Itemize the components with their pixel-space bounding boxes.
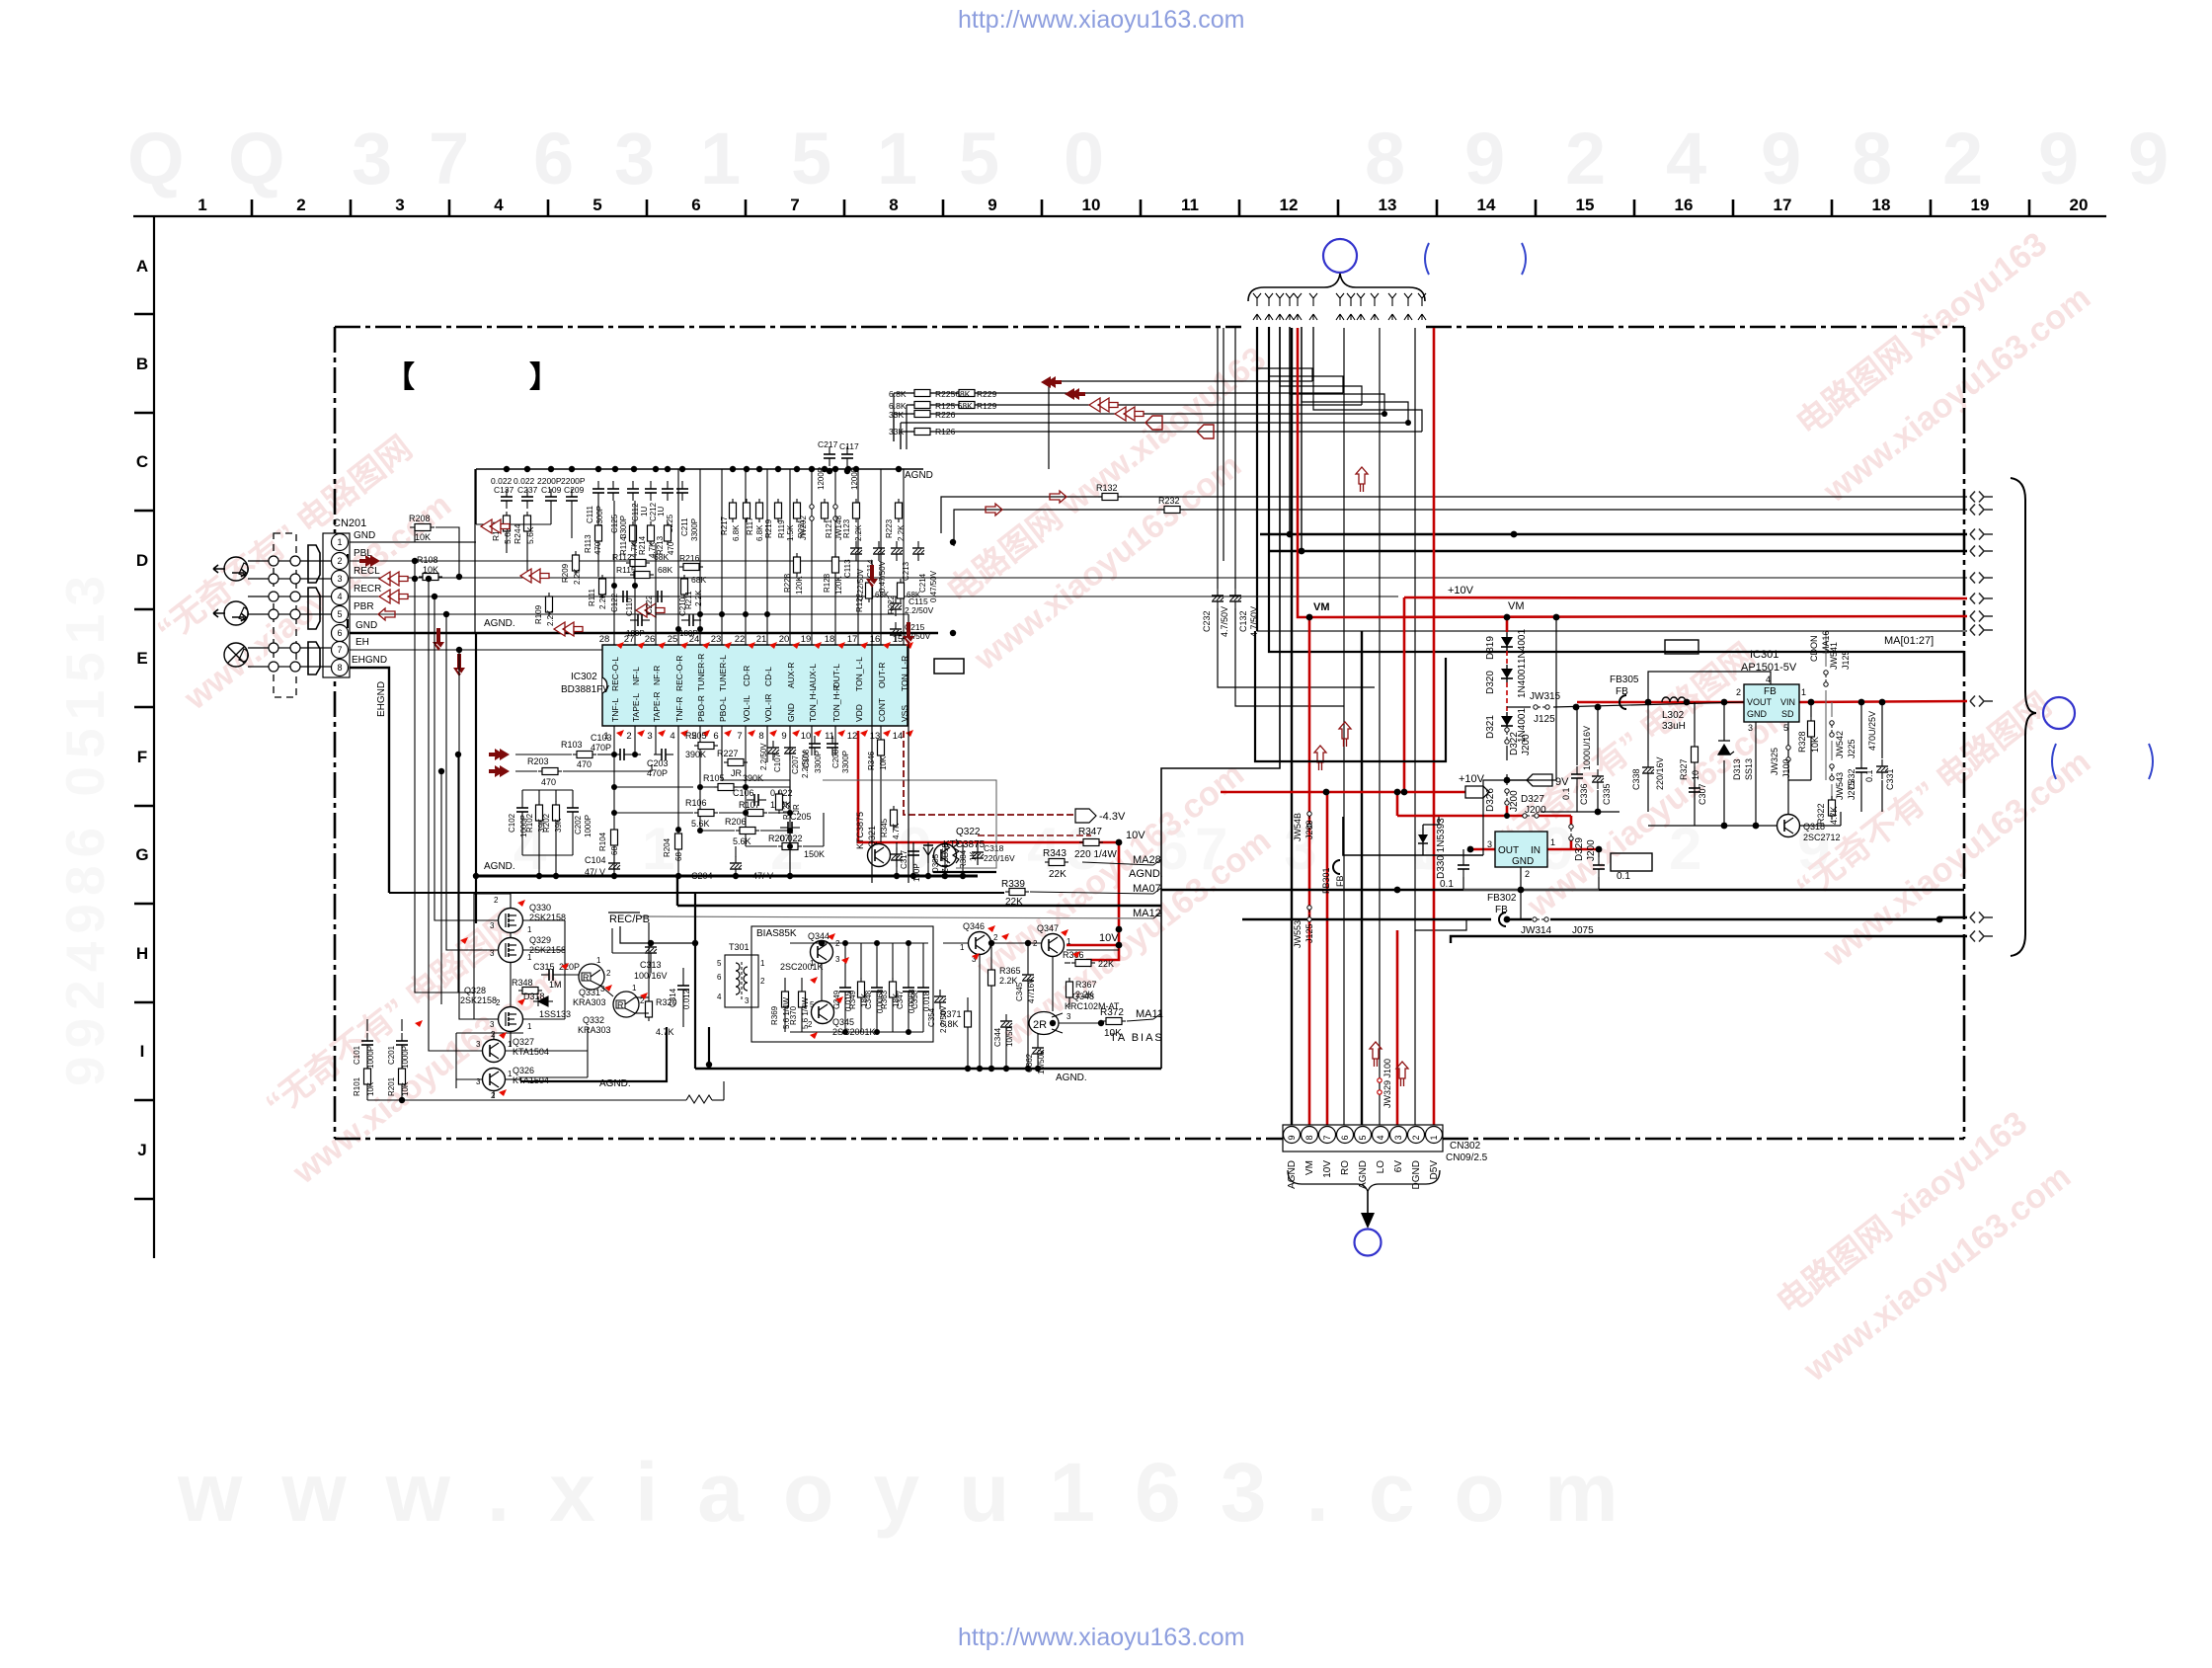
svg-text:VOL-IL: VOL-IL (742, 695, 751, 722)
wire MA bus gray (350, 542, 1967, 631)
transistor Q318 (1777, 815, 1800, 837)
svg-text:3: 3 (1748, 723, 1753, 733)
capacitor C344 (1000, 1014, 1012, 1034)
svg-text:A: A (136, 257, 148, 276)
resistor R371 (965, 1007, 972, 1031)
svg-text:MA16: MA16 (1821, 630, 1831, 654)
capacitor C307 (1689, 780, 1700, 800)
arrow maroon up 4 (1396, 1062, 1408, 1086)
svg-text:C336: C336 (1579, 783, 1589, 805)
svg-text:C315: C315 (533, 962, 555, 972)
arrow maroon up 5 (1356, 467, 1368, 492)
svg-text:1: 1 (1550, 837, 1555, 847)
svg-text:CN302: CN302 (1450, 1141, 1481, 1152)
svg-text:R209: R209 (561, 563, 570, 583)
svg-text:470: 470 (541, 777, 556, 787)
svg-text:TUNER-L: TUNER-L (718, 655, 728, 691)
wire CDON MA16 column (1825, 631, 1827, 667)
wire x1318 down (1301, 327, 1303, 551)
svg-text:Q326: Q326 (513, 1066, 534, 1075)
svg-text:R115: R115 (616, 565, 636, 575)
wire thick corner x1285 (1269, 327, 1964, 652)
svg-text:C211: C211 (680, 517, 689, 536)
wire D330 1N5393 branch (1483, 617, 1556, 855)
svg-text:6.8K: 6.8K (940, 1019, 959, 1029)
capacitor C314 (677, 978, 689, 997)
svg-text:R244: R244 (513, 523, 522, 544)
svg-text:KRA303: KRA303 (573, 997, 606, 1007)
pin y-symbol columns (1253, 293, 1261, 320)
svg-text:EH: EH (355, 637, 369, 648)
svg-text:24: 24 (689, 634, 700, 645)
svg-text:1200P: 1200P (817, 467, 826, 490)
ferrite FB305 (1619, 695, 1626, 709)
svg-text:10: 10 (1691, 770, 1700, 780)
svg-text:8: 8 (889, 196, 898, 214)
svg-text:VM: VM (1508, 600, 1525, 612)
svg-text:7: 7 (790, 196, 799, 214)
svg-text:www.xiaoyu163.com: www.xiaoyu163.com (177, 1446, 1658, 1539)
svg-text:R322: R322 (1816, 803, 1826, 825)
svg-text:C107: C107 (773, 753, 782, 772)
svg-text:C354: C354 (927, 1007, 936, 1027)
pin names bottom row (610, 684, 909, 722)
resistor R121 (822, 499, 829, 522)
svg-text:18: 18 (1872, 196, 1891, 214)
svg-text:C101: C101 (353, 1045, 361, 1065)
small rect spare2 (1611, 853, 1652, 871)
capacitor C313 (645, 940, 657, 960)
resistor R102 (536, 801, 543, 825)
svg-text:3: 3 (490, 921, 495, 930)
svg-text:6: 6 (1340, 1135, 1350, 1140)
resistor R122 (866, 579, 873, 602)
svg-text:Q332: Q332 (583, 1015, 604, 1025)
svg-text:JW54B: JW54B (1293, 813, 1303, 841)
capacitor C315 (541, 969, 561, 981)
jumper JW542 (1830, 721, 1834, 737)
capacitor C316 (891, 847, 903, 867)
wire column C232 (1217, 328, 1219, 589)
svg-text:9: 9 (1761, 118, 1801, 199)
svg-text:22K: 22K (1098, 959, 1114, 969)
wire maroon dashed VSS (904, 731, 1075, 815)
svg-text:E: E (136, 649, 147, 668)
capacitor C101 (361, 1033, 373, 1053)
svg-text:F: F (137, 748, 147, 766)
capacitor C204 (730, 856, 742, 876)
svg-text:1000U/16V: 1000U/16V (1582, 726, 1592, 770)
wire 9V tag link (1507, 779, 1533, 781)
svg-text:2.2/50V: 2.2/50V (759, 743, 768, 770)
tag -4.3V (1075, 809, 1096, 823)
svg-text:0.1: 0.1 (1617, 871, 1630, 882)
resistor R343 (1045, 859, 1068, 866)
svg-text:1N4001: 1N4001 (1517, 664, 1528, 698)
resistor R125 (910, 402, 934, 409)
svg-text:J225: J225 (1847, 739, 1856, 758)
wire red out of OUT pin (1470, 848, 1495, 851)
svg-text:120K: 120K (795, 576, 804, 595)
wire R203 run (515, 770, 537, 772)
svg-text:TNF-L: TNF-L (610, 698, 620, 722)
wire FB loop over IC301 (1648, 672, 1771, 702)
jack circles column (269, 556, 300, 672)
svg-text:2SC2001K: 2SC2001K (780, 962, 824, 972)
capacitor C338 (1642, 760, 1654, 780)
svg-text:JW543: JW543 (1835, 772, 1845, 800)
svg-text:21: 21 (756, 634, 767, 645)
resistor R348 (518, 988, 542, 994)
wire AGND bus (474, 469, 476, 633)
jumper JW543 (1830, 764, 1834, 780)
svg-text:C203: C203 (647, 758, 669, 768)
svg-text:0.1: 0.1 (1864, 769, 1874, 782)
svg-text:+10V: +10V (1459, 773, 1485, 785)
svg-text:R101: R101 (353, 1076, 361, 1096)
svg-text:2.2K: 2.2K (694, 590, 703, 606)
svg-text:2: 2 (337, 556, 342, 566)
svg-text:4: 4 (1666, 118, 1706, 199)
svg-text:470: 470 (577, 759, 592, 769)
svg-text:D330 1N5393: D330 1N5393 (1436, 818, 1447, 879)
svg-text:3: 3 (1393, 1135, 1403, 1140)
svg-text:OUT: OUT (1498, 845, 1519, 856)
svg-text:4.7K: 4.7K (1829, 806, 1839, 825)
svg-text:C102: C102 (508, 813, 516, 833)
svg-text:C232: C232 (1202, 610, 1212, 632)
wire red vertical x1422 (1403, 597, 1406, 792)
arrow open maroon left2 (520, 569, 549, 583)
wire thick corner x1296 down (1161, 327, 1280, 1069)
svg-text:R369: R369 (770, 1005, 779, 1025)
svg-text:8: 8 (337, 663, 342, 673)
svg-text:9: 9 (2038, 118, 2079, 199)
IC IC302 BD3881FV (602, 645, 908, 726)
capacitor C106 (747, 794, 766, 806)
svg-text:6.8K: 6.8K (755, 524, 764, 541)
svg-text:1: 1 (810, 959, 815, 968)
svg-text:2: 2 (1736, 687, 1741, 697)
svg-text:10K: 10K (1810, 737, 1820, 753)
svg-text:R104: R104 (598, 832, 607, 851)
svg-text:2: 2 (1942, 118, 1983, 199)
svg-text:2R: 2R (1033, 1019, 1047, 1031)
wire Q327/Q326 frame (456, 1027, 588, 1098)
svg-text:Q322: Q322 (956, 827, 981, 837)
exit pair y638 (1970, 625, 1993, 636)
svg-text:R217: R217 (720, 516, 729, 535)
svg-text:3: 3 (476, 1077, 481, 1086)
wire GND thick CN201 (350, 632, 938, 635)
svg-text:2: 2 (993, 933, 998, 942)
svg-text:MA07: MA07 (1133, 883, 1161, 895)
svg-text:33K: 33K (889, 410, 904, 420)
capacitor C336 (1571, 766, 1583, 786)
shield pentagon 1 (308, 545, 320, 583)
arrow maroon solid right1 (489, 749, 510, 760)
svg-text:4: 4 (1376, 1135, 1385, 1140)
capacitor C232 (1212, 589, 1224, 608)
svg-text:C318: C318 (984, 843, 1004, 853)
svg-text:J125: J125 (1304, 923, 1314, 943)
capacitor C107 (767, 741, 779, 760)
svg-text:GND: GND (355, 620, 377, 631)
svg-text:10V: 10V (1322, 1160, 1333, 1178)
svg-text:10V: 10V (1099, 932, 1119, 944)
svg-text:390K: 390K (685, 750, 706, 759)
svg-text:GND: GND (354, 530, 375, 541)
svg-text:25: 25 (668, 634, 678, 645)
svg-text:8: 8 (758, 731, 763, 742)
node blue circle top (1323, 239, 1357, 273)
resistor R206 (736, 828, 759, 834)
resistor R201 (399, 1065, 406, 1088)
svg-text:10: 10 (1082, 196, 1101, 214)
svg-text:2: 2 (1525, 869, 1530, 879)
svg-text:D326: D326 (1485, 788, 1496, 812)
svg-text:C201: C201 (387, 1045, 396, 1065)
arrow maroon up 2 (1314, 746, 1326, 770)
svg-text:D329: D329 (1574, 837, 1585, 861)
svg-text:2.2K: 2.2K (546, 609, 555, 626)
ruler top (133, 215, 2106, 217)
resistor R222 (898, 579, 905, 602)
resistor R123 (853, 499, 860, 522)
big right brace (2011, 478, 2036, 956)
svg-text:GND: GND (786, 703, 796, 722)
svg-text:R339: R339 (1001, 879, 1025, 890)
svg-text:1: 1 (1066, 937, 1071, 946)
svg-text:68K: 68K (691, 575, 706, 585)
svg-text:R214: R214 (638, 535, 647, 555)
svg-text:B: B (136, 355, 148, 373)
svg-text:3300P: 3300P (619, 516, 628, 538)
capacitor C217 (824, 446, 835, 466)
svg-text:R202: R202 (542, 813, 551, 833)
capacitor C358 (917, 980, 929, 999)
capacitor C110 180P (630, 614, 650, 626)
wire thick Q326 area (520, 1027, 667, 1081)
arrow maroon solid left y386 (1041, 376, 1062, 388)
svg-text:R123: R123 (842, 518, 851, 538)
connector pin Y symbols (1253, 293, 1426, 320)
transistor Q347 (1042, 934, 1065, 957)
svg-text:FB302: FB302 (1487, 893, 1517, 904)
wire top rail (476, 468, 923, 470)
svg-text:5: 5 (717, 959, 722, 968)
capacitor C225 (662, 481, 673, 501)
svg-text:7: 7 (429, 118, 469, 199)
resistor R229 (955, 390, 979, 397)
svg-text:KRA303: KRA303 (578, 1025, 611, 1035)
watermark pink diagonal (134, 224, 2101, 1390)
svg-text:-4.3V: -4.3V (1099, 811, 1126, 823)
resistor R217 (730, 499, 737, 522)
svg-text:R327: R327 (1679, 758, 1689, 780)
capacitor C109 (545, 489, 557, 509)
svg-text:20: 20 (2070, 196, 2089, 214)
svg-text:17: 17 (847, 634, 858, 645)
capacitor C125 (607, 481, 619, 501)
svg-text:2: 2 (1411, 1135, 1421, 1140)
transistor Q327 (483, 1040, 506, 1063)
svg-text:6: 6 (717, 973, 722, 982)
svg-text:R: R (583, 973, 590, 983)
svg-text:0.47/50V: 0.47/50V (929, 570, 938, 602)
svg-text:R105: R105 (703, 773, 725, 783)
jumper D326 (1505, 789, 1509, 805)
svg-text:15: 15 (893, 634, 904, 645)
svg-text:5: 5 (810, 1000, 815, 1009)
svg-text:17: 17 (1774, 196, 1792, 214)
ferrite FB301 (1333, 860, 1340, 874)
svg-text:4: 4 (337, 592, 342, 601)
svg-text:7: 7 (737, 731, 742, 742)
exit pair y558 (1970, 546, 1993, 557)
transistor Q346 (969, 932, 991, 955)
resistor R347 (1079, 839, 1103, 846)
svg-text:RO: RO (1340, 1160, 1351, 1175)
svg-text:68K: 68K (658, 565, 672, 575)
svg-text:FB305: FB305 (1610, 675, 1639, 685)
svg-text:4.7/50V: 4.7/50V (1220, 606, 1229, 637)
wire C102 group (522, 790, 573, 876)
svg-text:R219: R219 (764, 518, 773, 538)
jumper JW202 (810, 505, 814, 520)
capacitor 0.1 right (1593, 857, 1605, 877)
capacitor C347 (903, 980, 914, 999)
diode D330 (1343, 817, 1483, 855)
wire JW315 row (1507, 706, 1531, 708)
jumper JW148 (833, 505, 837, 520)
wire AGND bus bottom (695, 1068, 1161, 1071)
resistor R232 (1160, 507, 1184, 514)
capacitor C114 (873, 541, 885, 561)
svg-text:AGND.: AGND. (599, 1078, 631, 1089)
svg-text:6.8K: 6.8K (889, 389, 907, 399)
svg-text:GND: GND (1747, 709, 1768, 719)
svg-text:R128: R128 (823, 573, 831, 593)
inductor L302 (1662, 697, 1686, 702)
svg-text:6: 6 (533, 118, 574, 199)
zener D305 (923, 845, 933, 863)
capacitor 0.1 left (1458, 857, 1469, 877)
svg-text:AP1501-5V: AP1501-5V (1741, 662, 1797, 674)
svg-text:JR: JR (792, 804, 801, 814)
svg-text:8: 8 (1365, 118, 1405, 199)
svg-text:OUT-L: OUT-L (831, 664, 841, 688)
svg-text:220 1/4W: 220 1/4W (1074, 849, 1117, 860)
svg-text:C338: C338 (1631, 768, 1641, 790)
arrow down to circle (1367, 1192, 1369, 1213)
svg-text:D305: D305 (931, 853, 940, 873)
capacitor C214 (912, 541, 924, 561)
capacitor C202 (567, 800, 579, 820)
svg-text:C104: C104 (585, 855, 606, 865)
svg-text:5: 5 (791, 118, 831, 199)
wire C338 (1647, 702, 1649, 760)
svg-text:D318: D318 (523, 992, 545, 1001)
svg-text:C: C (136, 452, 148, 471)
capacitor C212 (645, 481, 657, 501)
wire thick black long horizontal G row (AGND bus 901) (1161, 889, 1964, 891)
svg-text:J200: J200 (1304, 820, 1314, 839)
svg-text:C108: C108 (802, 749, 811, 768)
svg-text:10: 10 (801, 731, 812, 742)
resistor R208 (411, 524, 434, 531)
wire R232 line (954, 510, 1967, 546)
wire RECL full run (350, 577, 1967, 579)
svg-text:JW542: JW542 (1835, 731, 1845, 758)
jack plug X (224, 643, 248, 667)
capacitor C132 (1229, 589, 1241, 608)
arrow open maroon RECL (379, 572, 408, 586)
svg-text:JW315: JW315 (1530, 691, 1561, 702)
resistor R228 (794, 553, 801, 577)
transistor Q331 KRA303 (579, 964, 604, 990)
capacitor C122 (615, 591, 635, 602)
arrow maroon solid right2 (489, 765, 510, 777)
svg-text:AGND.: AGND. (484, 618, 515, 629)
svg-text:KTA1504: KTA1504 (513, 1047, 549, 1057)
arrow open pentagon left y437 (1197, 425, 1214, 438)
svg-text:Q348: Q348 (1072, 992, 1094, 1001)
svg-text:KRC102M-AT: KRC102M-AT (1065, 1001, 1120, 1011)
wire 0.1 caps beside OUT/IN (1463, 849, 1599, 890)
resistor R223 (896, 499, 903, 522)
capacitor C210 180P (681, 614, 701, 626)
svg-text:R232: R232 (1158, 496, 1180, 506)
exit pair y541 (1970, 529, 1993, 540)
diode D321 (1501, 712, 1513, 730)
svg-text:IC302: IC302 (571, 672, 597, 682)
svg-text:VOL-IR: VOL-IR (763, 694, 773, 722)
wire C336/C335 tops (1576, 707, 1578, 765)
svg-text:19: 19 (801, 634, 812, 645)
svg-text:3: 3 (1487, 839, 1492, 849)
svg-text:JW329 J100: JW329 J100 (1382, 1059, 1392, 1108)
capacitor C209 (566, 489, 578, 509)
svg-text:C209: C209 (564, 485, 585, 495)
svg-text:H: H (136, 944, 148, 963)
jumper JW314 (1533, 917, 1548, 921)
svg-text:1U: 1U (640, 507, 649, 516)
svg-text:http://www.xiaoyu163.com: http://www.xiaoyu163.com (958, 1624, 1244, 1651)
transformer T301 (725, 955, 758, 1007)
svg-text:19: 19 (1971, 196, 1990, 214)
svg-text:G: G (135, 845, 148, 864)
svg-text:1: 1 (1801, 687, 1806, 697)
svg-text:Q346: Q346 (963, 921, 985, 931)
svg-text:D320: D320 (1485, 671, 1496, 694)
capacitor C117 (841, 446, 853, 466)
capacitor C222 (650, 591, 670, 602)
resistor R244 (524, 512, 531, 535)
svg-text:2.2K: 2.2K (598, 593, 607, 609)
svg-text:1N4001: 1N4001 (1517, 629, 1528, 664)
capacitor C108 (809, 736, 821, 755)
wire red +10V rail middle (1221, 791, 1465, 794)
capacitor C112 (627, 481, 639, 501)
svg-text:220/16V: 220/16V (984, 853, 1015, 863)
wire left ends of fan going down to top row (1048, 381, 1050, 469)
svg-text:7: 7 (1322, 1135, 1332, 1140)
svg-text:Q347: Q347 (1037, 923, 1059, 933)
resistor R132 (1098, 494, 1122, 501)
node blue circle bottom (1355, 1230, 1382, 1256)
wire R132 line (941, 497, 1967, 533)
